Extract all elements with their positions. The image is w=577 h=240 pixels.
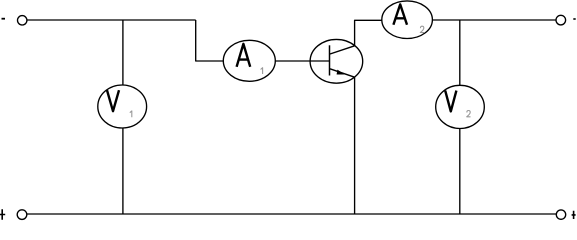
transistor Q1 xyxy=(310,39,363,83)
wire bottom rail xyxy=(27,213,556,215)
wire top rail left xyxy=(27,19,196,21)
terminal BL xyxy=(17,210,27,220)
plus polarity mark bottom-right xyxy=(572,211,576,219)
voltmeter V2 xyxy=(436,85,485,128)
voltmeter V1 xyxy=(98,85,147,128)
ammeter A1 xyxy=(223,40,275,81)
wire A2 to terminal TR xyxy=(432,19,556,21)
wire V2 branch bottom xyxy=(459,129,461,215)
wire emitter down xyxy=(354,77,356,214)
terminal BR xyxy=(556,210,565,219)
wire collector up to A2 xyxy=(355,20,382,46)
wire V1 branch bottom xyxy=(122,128,124,214)
terminal TL xyxy=(18,16,27,25)
plus polarity mark bottom-left xyxy=(0,209,5,220)
minus polarity mark top-left xyxy=(2,18,6,20)
terminal TR xyxy=(556,15,566,25)
wire base lead xyxy=(275,60,329,62)
minus polarity mark top-right xyxy=(573,18,575,20)
wire V1 branch top xyxy=(122,20,124,85)
wire V2 branch top xyxy=(459,20,461,85)
ammeter A2 xyxy=(382,1,433,39)
wire elbow top rail to A1 xyxy=(196,20,224,61)
